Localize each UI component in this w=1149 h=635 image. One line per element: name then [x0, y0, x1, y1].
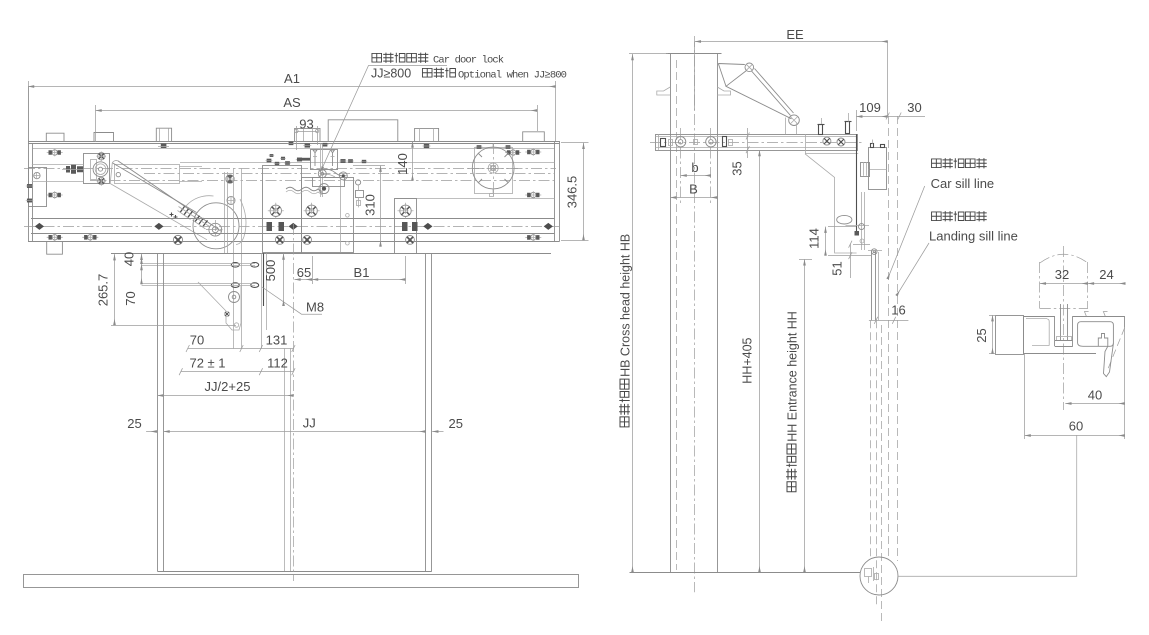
dimension B1	[405, 256, 407, 284]
car door panel	[871, 251, 873, 321]
sill profile	[1024, 316, 1055, 318]
bracket plate	[805, 134, 807, 154]
dimension 346.5	[561, 142, 589, 144]
dimension 30	[888, 116, 925, 118]
sill right edge	[1124, 316, 1126, 327]
ground baseline	[630, 572, 861, 574]
svg-text:70: 70	[190, 333, 204, 348]
dimension B	[670, 197, 717, 199]
sill profile left box	[996, 316, 1024, 355]
bracket top B6	[523, 132, 545, 141]
tongue guide shoe	[1060, 304, 1062, 341]
dimension row 70 / 131	[188, 348, 294, 350]
lock keeper bracket	[198, 282, 241, 330]
dimension 114	[828, 226, 856, 228]
svg-text:HB Cross head height HB: HB Cross head height HB	[619, 234, 633, 377]
hanger plate A	[263, 166, 302, 253]
dimension 40 vertical	[141, 254, 143, 264]
svg-text:Car door lock: Car door lock	[433, 55, 504, 67]
dimension 25 left	[146, 431, 157, 433]
phantom door/sill lines	[870, 320, 872, 560]
header case housing	[28, 141, 560, 143]
lock spring arm	[286, 187, 322, 191]
svg-text:JJ/2+25: JJ/2+25	[205, 379, 251, 394]
M8 slots	[231, 263, 239, 268]
car door lock label	[372, 53, 382, 62]
hanger plate C	[395, 199, 417, 254]
belt hook	[236, 199, 246, 245]
eccentric rollers	[275, 236, 284, 245]
dimension 65	[312, 256, 314, 284]
svg-text:65: 65	[297, 265, 311, 280]
motor mount plate	[84, 154, 110, 184]
svg-text:Car sill line: Car sill line	[931, 176, 995, 191]
svg-text:32: 32	[1055, 267, 1069, 282]
dimension JJ	[164, 431, 426, 433]
dimension JJ/2+25	[157, 395, 293, 397]
swing arm	[118, 161, 222, 232]
motor shaft	[93, 162, 108, 177]
dimension 25 sill	[989, 315, 996, 317]
belt clamp plates	[267, 222, 418, 231]
bracket top B3	[156, 128, 171, 141]
svg-text:Landing sill line: Landing sill line	[929, 229, 1018, 244]
svg-text:51: 51	[830, 261, 845, 275]
landing sill line label	[897, 243, 930, 296]
svg-text:25: 25	[127, 416, 141, 431]
svg-text:A1: A1	[284, 71, 300, 86]
car door lock label leader	[320, 66, 447, 173]
crosshead column	[670, 53, 672, 572]
svg-text:112: 112	[267, 356, 288, 371]
left end bracket	[29, 168, 47, 207]
svg-text:131: 131	[266, 333, 288, 348]
svg-text:60: 60	[1069, 419, 1083, 434]
door lock cover plate	[328, 120, 398, 141]
dimension HH entrance height	[799, 259, 812, 261]
dimension 109	[856, 110, 858, 131]
bar bolts	[675, 137, 685, 147]
floor sill strip	[24, 575, 579, 588]
leader M8	[262, 287, 322, 314]
right pulley bracket	[475, 148, 513, 194]
belt clamps	[35, 223, 44, 230]
svg-text:HH+405: HH+405	[741, 337, 755, 383]
column cap	[666, 53, 722, 55]
EE extension	[887, 42, 889, 116]
dimension 70 vertical	[141, 264, 143, 284]
svg-text:40: 40	[122, 252, 137, 266]
drive belt band	[115, 165, 180, 184]
dimension 25 right	[432, 431, 443, 433]
column feet	[657, 87, 670, 95]
bottom bracket	[47, 242, 63, 255]
bracket top B5	[415, 128, 439, 141]
dimension 60 sill	[1024, 354, 1026, 439]
svg-text:JJ: JJ	[303, 416, 316, 431]
svg-text:16: 16	[891, 303, 905, 318]
detail connector	[898, 435, 1077, 576]
svg-text:40: 40	[1088, 388, 1102, 403]
car door hanger	[856, 134, 858, 234]
svg-text:25: 25	[974, 328, 989, 342]
svg-text:310: 310	[363, 194, 378, 216]
dimension 51	[853, 244, 870, 246]
dimension 35	[747, 128, 749, 158]
svg-text:b: b	[691, 160, 698, 175]
svg-text:Optional when JJ≥800: Optional when JJ≥800	[458, 70, 567, 82]
svg-text:M8: M8	[306, 300, 324, 315]
door lock mechanism	[311, 150, 338, 170]
hanger rollers	[268, 203, 284, 219]
door panels top edge	[111, 253, 551, 255]
svg-text:346.5: 346.5	[565, 176, 580, 209]
svg-text:JJ≥800: JJ≥800	[371, 67, 411, 81]
left door panel	[157, 253, 159, 571]
stiffener channel	[233, 168, 235, 349]
dimension AS	[95, 105, 97, 142]
standing bolts	[819, 125, 823, 135]
interlock roller stack	[356, 180, 361, 185]
arm pivot bolt	[173, 235, 182, 244]
cam disc	[193, 203, 239, 249]
sheave box	[869, 148, 887, 190]
dimension 500	[283, 254, 285, 307]
linkage	[718, 64, 746, 87]
svg-text:EE: EE	[786, 27, 804, 42]
svg-text:30: 30	[907, 100, 921, 115]
svg-text:140: 140	[395, 153, 410, 175]
dimension A1	[28, 81, 30, 140]
dimension 140	[412, 141, 414, 180]
svg-text:AS: AS	[283, 95, 301, 110]
door tongue phantom	[1039, 262, 1041, 309]
svg-text:109: 109	[859, 100, 881, 115]
arm hub	[209, 223, 222, 236]
svg-text:114: 114	[807, 228, 822, 249]
svg-text:B: B	[689, 182, 698, 197]
arm spring hatch	[180, 207, 208, 227]
detail circle	[860, 557, 898, 595]
support bracket	[805, 154, 857, 253]
dimension HB cross head height	[629, 53, 668, 55]
track center lines	[180, 162, 555, 164]
hanger bar	[656, 135, 858, 151]
right door panel	[425, 253, 427, 571]
svg-text:B1: B1	[354, 265, 370, 280]
sill groove channel	[1078, 322, 1114, 347]
left door bracket	[224, 172, 226, 253]
dimension HH+405	[759, 150, 761, 572]
svg-text:HH Entrance height HH: HH Entrance height HH	[786, 311, 800, 442]
lower belt rail	[31, 218, 555, 220]
bracket top B1	[46, 133, 64, 141]
dimension 32	[1040, 283, 1088, 285]
svg-text:35: 35	[730, 161, 745, 175]
car sill line label	[888, 186, 925, 279]
dimension b	[681, 175, 711, 177]
wing bolts housing	[47, 149, 63, 157]
svg-text:500: 500	[263, 260, 278, 282]
right pulley	[472, 147, 514, 189]
door center lines	[293, 224, 295, 581]
dimension 93	[296, 126, 298, 150]
dimension 265.7	[111, 325, 236, 327]
svg-text:70: 70	[123, 291, 138, 305]
dimension 40 sill	[1124, 327, 1126, 439]
dimension 310	[353, 165, 385, 167]
svg-text:25: 25	[449, 416, 463, 431]
svg-text:265.7: 265.7	[96, 274, 111, 307]
svg-text:93: 93	[299, 117, 313, 132]
bracket top B4 (93 area)	[295, 128, 320, 141]
hanger plate B	[302, 178, 354, 253]
bracket top B2	[94, 133, 114, 142]
svg-text:72 ± 1: 72 ± 1	[189, 356, 225, 371]
dimension row 72±1 / 112	[181, 371, 294, 373]
lock lever plate	[313, 178, 345, 187]
dimension 24	[1088, 283, 1126, 285]
dimension EE	[694, 42, 696, 110]
svg-text:24: 24	[1099, 267, 1113, 282]
dimension 16	[869, 320, 909, 322]
motor coupling	[66, 165, 83, 174]
lock cam lever	[319, 169, 347, 176]
